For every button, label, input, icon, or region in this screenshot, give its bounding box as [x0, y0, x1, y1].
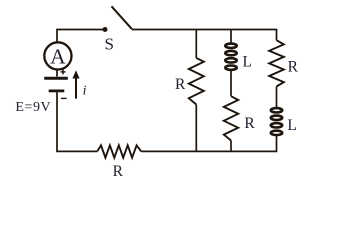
wire left rail top to top rail to switch dot: [57, 30, 105, 43]
svg-text:R: R: [175, 76, 186, 93]
battery E negative plate: [49, 90, 65, 93]
battery E positive plate: [44, 77, 68, 80]
resistor R1 branch1 zigzag: [189, 58, 204, 105]
node switch dot: [103, 27, 108, 32]
wire top rail right and right rail upper stub: [132, 30, 277, 41]
wire branch1 upper stub: [195, 30, 197, 59]
wire branch2 upper stub: [230, 30, 232, 44]
svg-text:S: S: [105, 35, 114, 54]
resistor R3 branch3 zigzag: [269, 40, 284, 86]
svg-text:E=9V: E=9V: [15, 100, 51, 115]
svg-text:R: R: [288, 58, 299, 75]
wire branch1 lower: [195, 105, 197, 152]
svg-text:L: L: [243, 53, 252, 70]
svg-text:R: R: [244, 115, 255, 132]
resistor R2 branch2 zigzag: [224, 96, 238, 140]
wire battery to bottom rail and bottom rail to resistor: [57, 92, 97, 151]
current arrow i shaft: [75, 78, 77, 99]
ammeter U1 circle: [44, 42, 71, 69]
svg-text:A: A: [50, 44, 66, 68]
current arrow i head: [72, 70, 79, 78]
svg-text:L: L: [287, 117, 296, 134]
svg-text:R: R: [113, 163, 124, 180]
inductor L3 coil branch3: [271, 108, 282, 135]
plus sign: [61, 70, 66, 75]
svg-text:i: i: [83, 84, 87, 99]
resistor R bottom zigzag: [97, 145, 141, 157]
wire branch2 coil to resistor: [230, 71, 232, 97]
minus sign: [61, 97, 67, 99]
wire branch2 lower: [230, 141, 232, 152]
inductor L2 coil branch2: [225, 44, 236, 70]
switch S blade: [112, 6, 133, 29]
wire ammeter to battery: [56, 70, 58, 77]
wire bottom rail right and right rail lower stub: [141, 136, 276, 152]
wire branch3 resistor to coil: [276, 87, 278, 108]
